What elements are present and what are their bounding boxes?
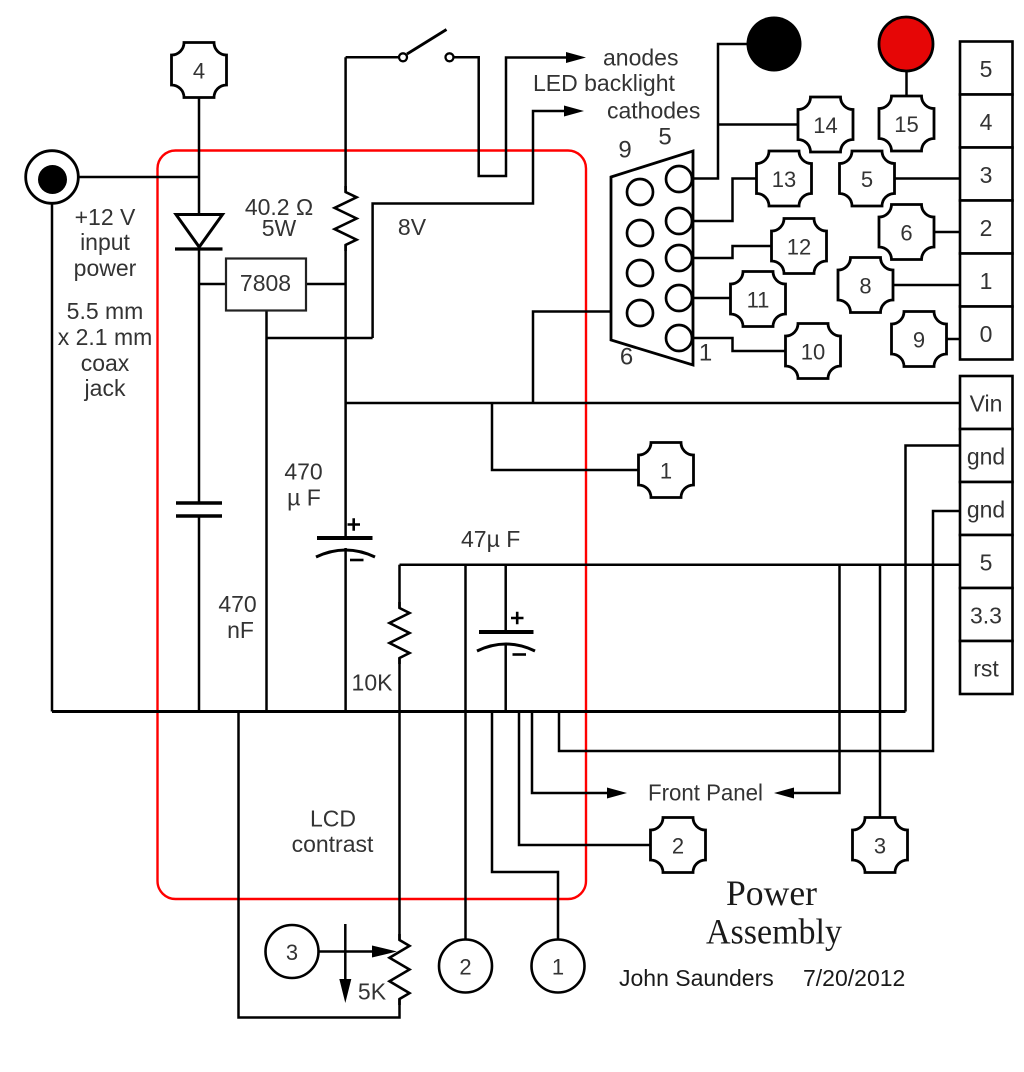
node 4 bbox=[172, 43, 227, 98]
arrow: front panel left bbox=[607, 788, 627, 799]
svg-text:input: input bbox=[80, 229, 130, 255]
svg-text:Vin: Vin bbox=[970, 391, 1003, 417]
svg-text:3: 3 bbox=[874, 834, 886, 859]
svg-text:5K: 5K bbox=[358, 979, 387, 1005]
node 14 bbox=[798, 97, 853, 152]
wire: node 9 to header 0 bbox=[947, 338, 961, 341]
wire: node 6 to header 2 bbox=[934, 231, 960, 234]
svg-text:x 2.1 mm: x 2.1 mm bbox=[58, 324, 153, 350]
wire: node 2 octagon path bbox=[519, 712, 651, 846]
svg-text:6: 6 bbox=[620, 344, 633, 371]
node 2 bbox=[651, 818, 706, 873]
svg-text:470: 470 bbox=[284, 459, 322, 485]
svg-text:4: 4 bbox=[193, 59, 205, 84]
svg-text:5W: 5W bbox=[262, 215, 297, 241]
svg-text:rst: rst bbox=[973, 656, 999, 682]
svg-text:9: 9 bbox=[618, 137, 631, 164]
svg-text:6: 6 bbox=[900, 221, 912, 246]
svg-text:LCD: LCD bbox=[310, 806, 356, 832]
svg-text:1: 1 bbox=[660, 459, 672, 484]
node 2 (circle) bbox=[439, 940, 492, 993]
svg-text:+12 V: +12 V bbox=[75, 204, 136, 230]
svg-text:1: 1 bbox=[980, 268, 993, 294]
node 15 bbox=[879, 96, 934, 151]
wire: DB9 pin6 branch to Vin net bbox=[533, 312, 628, 404]
wire: switch feed from 40.2ohm resistor top bbox=[346, 56, 399, 59]
wire: Vin net horizontal bbox=[346, 402, 960, 405]
arrow: anodes bbox=[566, 52, 586, 63]
wire: jack to diode node bbox=[79, 176, 199, 179]
wire: gnd2 header loop bbox=[559, 511, 960, 751]
svg-text:gnd: gnd bbox=[967, 444, 1005, 470]
svg-text:1: 1 bbox=[552, 955, 564, 980]
pot wiper arrow from circle 3 bbox=[319, 950, 375, 953]
svg-text:5: 5 bbox=[980, 550, 993, 576]
capacitor C3 47uF electrolytic bbox=[477, 612, 535, 655]
svg-text:11: 11 bbox=[747, 288, 770, 313]
svg-text:LED backlight: LED backlight bbox=[533, 70, 676, 96]
svg-text:3.3: 3.3 bbox=[970, 603, 1002, 629]
black LED indicator bbox=[747, 17, 802, 72]
diode D1 bbox=[175, 215, 223, 250]
J2 pin circle right 3 bbox=[666, 245, 692, 271]
wire: jack down to ground bus bbox=[51, 204, 54, 712]
wire: bus up to gnd header bbox=[906, 446, 961, 712]
svg-text:7/20/2012: 7/20/2012 bbox=[803, 965, 905, 991]
svg-text:jack: jack bbox=[84, 375, 126, 401]
svg-text:13: 13 bbox=[772, 167, 796, 192]
svg-text:Front Panel: Front Panel bbox=[648, 780, 763, 806]
wire: node 3 octagon riser bbox=[879, 565, 882, 818]
red LED indicator bbox=[879, 17, 933, 71]
wire: DB9 pin2 to node 11 bbox=[692, 297, 731, 300]
svg-text:0: 0 bbox=[980, 321, 993, 347]
J2 pin circle right 4 bbox=[666, 285, 692, 311]
svg-text:5.5 mm: 5.5 mm bbox=[67, 298, 144, 324]
J2 pin circle right 2 bbox=[666, 208, 692, 234]
node 8 bbox=[838, 258, 893, 313]
wire: circle node 2 riser bbox=[464, 565, 467, 940]
capacitor C1 470nF bbox=[176, 503, 222, 516]
wire: front panel right feed from 5V bbox=[793, 565, 840, 793]
svg-text:8: 8 bbox=[859, 274, 871, 299]
wire: 5V net horizontal bbox=[400, 563, 961, 566]
J2 pin circle left 1 bbox=[627, 179, 653, 205]
header column: power pins Vin gnd gnd 5 3.3 rst bbox=[960, 376, 1013, 694]
wire: 7808 output pin bbox=[306, 283, 346, 286]
wire: 470uF to ground bus bbox=[344, 548, 347, 712]
ground bus wire bbox=[52, 710, 906, 713]
wire: 47uF bottom lead to bus bbox=[504, 644, 507, 712]
wire: node at y338 horizontal bbox=[267, 337, 373, 340]
svg-text:Power: Power bbox=[726, 873, 817, 913]
node 11 bbox=[731, 272, 786, 327]
wire: front panel left feed bbox=[532, 712, 608, 794]
coax jack J1 bbox=[26, 151, 79, 204]
arrow: front panel right bbox=[774, 788, 794, 799]
svg-text:anodes: anodes bbox=[603, 45, 678, 71]
wire: node 5 to header 3 bbox=[895, 177, 961, 180]
wire: pot bottom to return bbox=[239, 712, 400, 1018]
switch SW1 bbox=[399, 30, 454, 62]
svg-text:2: 2 bbox=[672, 834, 684, 859]
svg-text:10K: 10K bbox=[352, 670, 394, 696]
wire: node 14 to riser bbox=[718, 123, 798, 126]
wire: node 4 stem down to +12V rail bbox=[198, 98, 201, 215]
J2 pin circle left 4 bbox=[627, 300, 653, 326]
svg-text:3: 3 bbox=[286, 940, 298, 965]
arrow: cathodes bbox=[564, 106, 584, 117]
node 10 bbox=[786, 324, 841, 379]
J2 pin circle right 1 bbox=[666, 166, 692, 192]
node 9 bbox=[892, 312, 947, 367]
node 1 bbox=[639, 443, 694, 498]
svg-text:5: 5 bbox=[861, 167, 873, 192]
wire: resistor 40.2 bottom to 470uF bbox=[344, 245, 347, 538]
header column: front panel pins 5-0 bbox=[960, 42, 1013, 360]
svg-text:12: 12 bbox=[787, 235, 811, 260]
wire: DB9 pin1 to node 10 bbox=[692, 338, 786, 351]
svg-text:contrast: contrast bbox=[292, 831, 374, 857]
svg-text:cathodes: cathodes bbox=[607, 98, 700, 124]
svg-text:1: 1 bbox=[699, 340, 712, 367]
wire: circle node 1 path bbox=[492, 712, 558, 940]
node 3 (circle) bbox=[266, 925, 319, 978]
node 13 bbox=[757, 151, 812, 206]
wire: diode cathode down to 470nF bbox=[198, 249, 201, 503]
wire: node14/black LED/DB9 pin5 riser bbox=[692, 44, 748, 179]
node 5 bbox=[840, 151, 895, 206]
wire: resistor 40.2 top lead bbox=[344, 57, 347, 192]
svg-text:47µ F: 47µ F bbox=[461, 526, 520, 552]
wire: branch to node 1 bbox=[492, 403, 639, 470]
J2 pin circle left 3 bbox=[627, 260, 653, 286]
regulator U1 7808 bbox=[226, 259, 306, 311]
resistor R1 40.2 ohm 5W bbox=[335, 186, 357, 251]
wire: node 8 to header 1 bbox=[893, 284, 960, 287]
power assembly outline (red box) bbox=[158, 151, 587, 900]
svg-text:4: 4 bbox=[980, 109, 993, 135]
svg-text:2: 2 bbox=[459, 955, 471, 980]
svg-text:8V: 8V bbox=[398, 214, 427, 240]
svg-text:7808: 7808 bbox=[240, 270, 291, 296]
svg-text:3: 3 bbox=[980, 162, 993, 188]
svg-text:5: 5 bbox=[658, 124, 671, 151]
svg-text:10: 10 bbox=[801, 340, 825, 365]
node 3 bbox=[853, 818, 908, 873]
node 12 bbox=[772, 219, 827, 274]
connector J2 DB9 bbox=[611, 151, 693, 365]
wire: 7808 ground pin down to bus bbox=[265, 311, 268, 712]
svg-text:µ F: µ F bbox=[287, 485, 321, 511]
svg-text:power: power bbox=[74, 255, 137, 281]
wire: DB9 pin3 to node 12 bbox=[692, 246, 772, 258]
wire: switch to anodes arrow bbox=[454, 57, 568, 176]
svg-text:coax: coax bbox=[81, 350, 130, 376]
node 1 (circle) bbox=[532, 940, 585, 993]
svg-text:John Saunders: John Saunders bbox=[619, 965, 774, 991]
wire: 470nF to ground bus bbox=[198, 516, 201, 712]
capacitor C2 470uF electrolytic bbox=[316, 518, 375, 560]
svg-text:14: 14 bbox=[813, 113, 837, 138]
J2 pin circle left 2 bbox=[627, 220, 653, 246]
wire: 10K bottom through bus to pot bbox=[398, 658, 401, 940]
svg-text:Assembly: Assembly bbox=[706, 912, 842, 952]
svg-text:470: 470 bbox=[218, 591, 256, 617]
svg-text:5: 5 bbox=[980, 56, 993, 82]
wire: 8V net vertical bbox=[373, 111, 567, 338]
resistor R2 10K bbox=[390, 602, 410, 664]
svg-text:gnd: gnd bbox=[967, 497, 1005, 523]
svg-text:2: 2 bbox=[980, 215, 993, 241]
svg-text:nF: nF bbox=[227, 617, 254, 643]
wire: DB9 pin4 to node 13 bbox=[692, 179, 757, 222]
wire: 10K top lead bbox=[398, 565, 401, 608]
potentiometer R3 5K bbox=[390, 934, 410, 1005]
wire: 7808 input pin bbox=[199, 283, 226, 286]
pot adjust down arrow bbox=[344, 924, 347, 984]
svg-text:15: 15 bbox=[894, 112, 918, 137]
wire: 47uF top lead bbox=[504, 565, 507, 632]
J2 pin circle right 5 bbox=[666, 325, 692, 351]
wire: red LED stem to node 15 bbox=[905, 71, 908, 97]
svg-text:9: 9 bbox=[913, 328, 925, 353]
node 6 bbox=[879, 205, 934, 260]
